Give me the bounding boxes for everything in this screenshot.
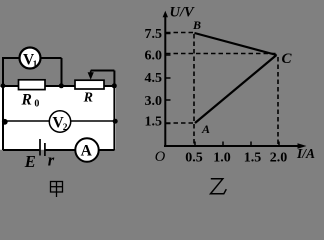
wire: V1 top branch [2, 57, 62, 59]
svg-text:C: C [282, 51, 293, 67]
wire: bottom left segment [3, 149, 39, 151]
svg-text:1.5: 1.5 [244, 150, 262, 165]
x tick 1.0 [222, 142, 224, 147]
dashed line 7.5 to B [166, 32, 194, 34]
x tick 2.0 [278, 142, 280, 147]
x-axis [164, 145, 302, 147]
wire: bottom right segment [46, 149, 115, 151]
wire: main horizontal [3, 85, 115, 87]
dashed vertical at I=2.0 through C [277, 57, 279, 146]
svg-text:I/A: I/A [296, 146, 315, 161]
voltmeter V2 [49, 111, 70, 133]
y-axis [164, 14, 166, 147]
junction: V1 branch / main wire [59, 83, 64, 88]
y tick 6.0 [166, 54, 171, 56]
wire: left rail [2, 58, 4, 150]
svg-text:0.5: 0.5 [185, 150, 203, 165]
svg-text:2: 2 [63, 123, 68, 133]
svg-text:A: A [201, 122, 210, 136]
svg-text:R: R [83, 91, 93, 106]
junction: V2 wire / right rail [113, 119, 118, 124]
voltmeter V1 [20, 48, 41, 70]
wire: V1 right drop [61, 58, 63, 87]
ammeter A [75, 138, 98, 161]
dashed vertical at I=0.5 [193, 34, 195, 146]
label yi (乙) [211, 179, 227, 194]
wire: V2 horizontal [3, 120, 115, 122]
svg-text:A: A [81, 142, 93, 159]
slider arrow of R [90, 71, 92, 75]
junction: V2 wire / left rail [2, 119, 8, 125]
junction: right rail / main wire [112, 83, 117, 88]
svg-text:U/V: U/V [170, 4, 196, 20]
svg-text:R: R [21, 92, 32, 109]
svg-text:7.5: 7.5 [145, 27, 163, 42]
svg-text:1.5: 1.5 [145, 114, 163, 129]
svg-text:4.5: 4.5 [145, 71, 163, 86]
dashed line 6.0 to C [166, 53, 276, 55]
label jia (甲) [51, 182, 63, 198]
svg-text:1.0: 1.0 [213, 150, 231, 165]
svg-text:O: O [155, 149, 166, 165]
svg-text:2.0: 2.0 [270, 150, 288, 165]
svg-text:0: 0 [34, 98, 39, 109]
svg-text:6.0: 6.0 [145, 48, 163, 63]
rheostat R [75, 80, 104, 89]
svg-text:r: r [48, 150, 55, 169]
svg-text:1: 1 [33, 60, 38, 70]
y tick 7.5 [166, 33, 171, 35]
x tick 0.5 [194, 142, 196, 147]
wire: slider to right rail [91, 70, 115, 72]
svg-text:E: E [24, 152, 36, 171]
y tick 3.0 [166, 99, 171, 101]
y tick 4.5 [166, 77, 171, 79]
junction: left rail / main wire [1, 83, 6, 88]
svg-text:3.0: 3.0 [145, 94, 163, 109]
white interior panel of circuit [0, 87, 116, 150]
svg-text:B: B [192, 18, 201, 32]
dashed line 1.5 to A [166, 122, 193, 124]
line B to C [195, 33, 277, 55]
x tick 1.5 [250, 142, 252, 147]
y tick 1.5 [166, 123, 171, 125]
resistor R0 [19, 80, 46, 90]
wire: right rail [113, 71, 115, 151]
battery E with internal resistance r [40, 139, 45, 156]
line A to C [195, 55, 277, 123]
